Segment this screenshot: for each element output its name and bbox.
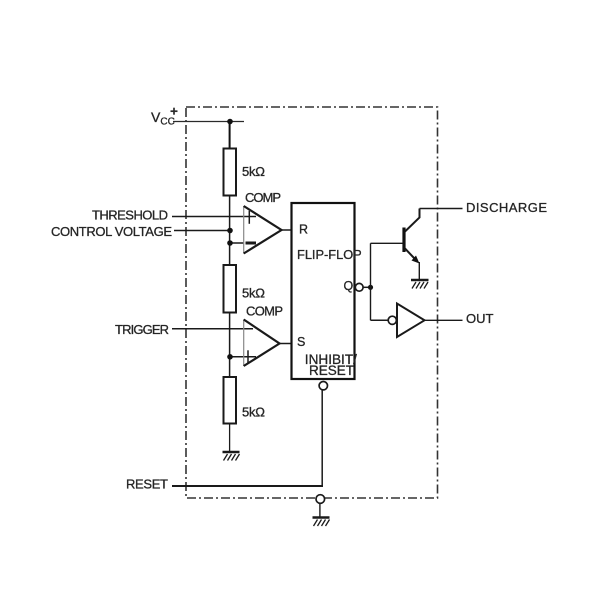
IC package boundary (dash-dot) bbox=[186, 107, 438, 498]
svg-text:5kΩ: 5kΩ bbox=[242, 405, 265, 420]
wire comparator 1 output to R input bbox=[282, 229, 292, 231]
wire Q bubble to junction bbox=[363, 286, 370, 288]
resistor R2 bbox=[224, 265, 237, 313]
output buffer U3 (inverter) bbox=[397, 304, 425, 338]
svg-text:RESET: RESET bbox=[309, 363, 354, 378]
wire collector to DISCHARGE bbox=[420, 208, 463, 210]
resistor R1 bbox=[224, 149, 237, 196]
svg-text:R: R bbox=[299, 223, 308, 237]
svg-text:RESET: RESET bbox=[126, 477, 168, 492]
ground under R3 bbox=[223, 452, 240, 461]
wire divider node to comparator 1 minus input bbox=[230, 242, 244, 244]
wire divider lower node to comparator 2 plus input bbox=[230, 356, 256, 358]
VCC plus sign bbox=[171, 108, 178, 115]
svg-text:TRIGGER: TRIGGER bbox=[115, 322, 169, 337]
svg-text:CONTROL VOLTAGE: CONTROL VOLTAGE bbox=[51, 224, 172, 239]
junction control voltage node bbox=[227, 228, 233, 234]
svg-text:DISCHARGE: DISCHARGE bbox=[466, 200, 547, 215]
wire VCC rail bbox=[173, 121, 244, 123]
op-amp comparator 1 (COMP) bbox=[244, 206, 282, 254]
GND terminal on boundary bbox=[316, 495, 325, 504]
flip-flop box U2 bbox=[292, 203, 355, 379]
ground at GND terminal bbox=[313, 518, 330, 527]
wire R2 bottom to trigger node bbox=[229, 313, 231, 378]
junction Q node bbox=[368, 285, 373, 290]
svg-text:COMP: COMP bbox=[245, 190, 281, 205]
wire buffer to OUT bbox=[425, 319, 463, 321]
wire Q node to transistor base bbox=[371, 242, 403, 244]
wire emitter to ground bbox=[418, 262, 420, 279]
wire Q node vertical bbox=[370, 243, 372, 320]
wire R3 bottom to ground bbox=[229, 424, 231, 452]
wire RESET rail bbox=[172, 485, 323, 487]
wire TRIGGER to comparator 2 minus input bbox=[172, 328, 253, 330]
svg-text:5kΩ: 5kΩ bbox=[242, 164, 265, 179]
wire CONTROL VOLTAGE to divider node bbox=[174, 230, 230, 232]
svg-text:THRESHOLD: THRESHOLD bbox=[92, 208, 168, 223]
junction comparator 2 plus node bbox=[227, 354, 233, 360]
wire R1 bottom to control node bbox=[229, 196, 231, 266]
output buffer input bubble bbox=[388, 316, 396, 324]
wire comparator 2 output to S input bbox=[280, 343, 292, 345]
transistor Q1 collector bbox=[405, 209, 420, 232]
svg-text:COMP: COMP bbox=[246, 304, 283, 319]
wire VCC junction to R1 bbox=[229, 122, 231, 149]
inhibit/reset bubble under flip-flop bbox=[319, 382, 327, 390]
wire GND terminal to ground bbox=[319, 503, 321, 516]
junction comparator 1 minus node bbox=[227, 240, 233, 246]
ground under transistor emitter bbox=[411, 280, 429, 289]
wire inhibit bubble down to RESET rail bbox=[321, 390, 323, 486]
svg-text:5kΩ: 5kΩ bbox=[242, 285, 265, 300]
Q output inverting bubble bbox=[355, 283, 363, 291]
resistor R3 bbox=[224, 377, 237, 424]
wire Q node to output buffer bbox=[371, 319, 389, 321]
junction VCC to R1 bbox=[227, 119, 233, 125]
comparator 1 plus sign bbox=[248, 211, 250, 224]
op-amp comparator 2 (COMP) bbox=[244, 320, 280, 367]
svg-text:FLIP-FLOP: FLIP-FLOP bbox=[297, 247, 362, 262]
transistor Q1 emitter with arrow bbox=[405, 249, 415, 259]
comparator 1 minus sign bbox=[246, 242, 257, 245]
svg-text:S: S bbox=[297, 335, 305, 349]
svg-text:OUT: OUT bbox=[466, 311, 494, 326]
transistor Q1 base bar bbox=[402, 228, 405, 253]
comparator 2 plus sign bbox=[247, 350, 249, 363]
svg-text:Q: Q bbox=[344, 279, 354, 293]
wire THRESHOLD to comparator 1 plus input bbox=[172, 216, 256, 218]
